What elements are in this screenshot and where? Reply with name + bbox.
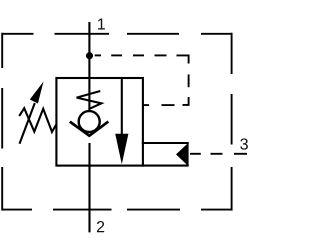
cartridge envelope right edge (dashed) — [231, 33, 233, 211]
port 1 line — [88, 22, 90, 78]
port 3 arrowhead — [176, 143, 189, 167]
port 1 label — [98, 18, 105, 29]
flow direction arrow — [115, 134, 128, 165]
valve body box — [56, 78, 142, 166]
poppet spring — [77, 91, 102, 109]
pilot wire into box (dashed) — [143, 104, 175, 106]
port 3 passage bottom line — [142, 165, 189, 167]
pilot wire top horizontal (dashed) — [95, 55, 189, 63]
cartridge envelope bottom edge (dashed) — [2, 209, 233, 211]
port 2 line — [88, 143, 90, 232]
adjustment arrow shaft — [20, 103, 35, 144]
poppet ball — [79, 111, 100, 132]
node junction dot — [86, 52, 93, 59]
flow path rod — [121, 78, 123, 140]
port 3 wire (dashed) — [190, 153, 247, 155]
pilot wire right vertical (dashed) — [183, 74, 189, 105]
adjustment spring — [19, 108, 57, 132]
port 2 label — [97, 221, 104, 232]
poppet seat — [70, 122, 109, 136]
poppet spring rod — [88, 78, 90, 112]
port 3 label — [240, 138, 248, 149]
cartridge envelope left edge (dashed) — [1, 33, 3, 211]
adjustment arrow head — [30, 82, 44, 104]
cartridge envelope top edge (dashed) — [2, 33, 233, 35]
port 3 passage top line — [142, 142, 189, 144]
